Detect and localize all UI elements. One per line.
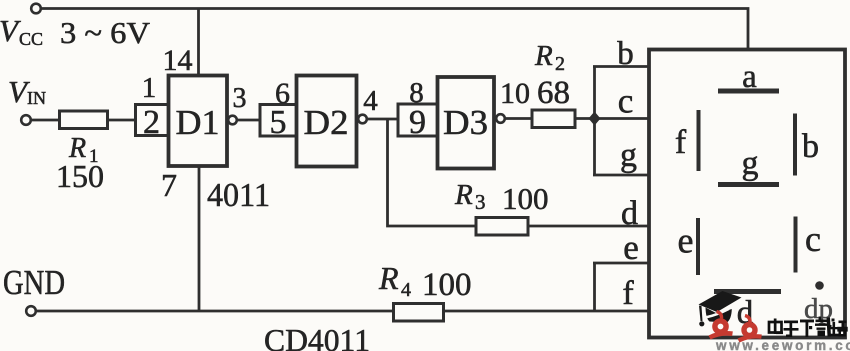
svg-text:d: d bbox=[621, 195, 638, 232]
label VIN bbox=[8, 74, 46, 109]
wire pin 7 of D1 to GND rail bbox=[198, 166, 201, 311]
resistor R3 bbox=[476, 218, 528, 236]
wire GND rail bbox=[36, 310, 394, 313]
svg-text:IN: IN bbox=[27, 88, 46, 108]
svg-text:f: f bbox=[622, 275, 634, 312]
wire D1 output to D2 input bbox=[237, 119, 261, 122]
label R3 bbox=[454, 179, 486, 214]
svg-text:150: 150 bbox=[56, 158, 104, 194]
node label e bbox=[623, 228, 639, 267]
value 150 bbox=[56, 158, 104, 194]
segment label b bbox=[802, 128, 819, 165]
node label g bbox=[620, 137, 637, 174]
segment a bbox=[718, 89, 779, 94]
svg-text:10: 10 bbox=[500, 77, 530, 110]
segment e bbox=[696, 218, 700, 275]
label VCC 3~6V bbox=[0, 13, 151, 50]
svg-text:V: V bbox=[0, 13, 21, 48]
gate D3 input box pin 9 bbox=[398, 104, 438, 141]
svg-text:2: 2 bbox=[555, 53, 565, 75]
gate D1 input box pin 2 bbox=[136, 104, 169, 141]
label R2 bbox=[534, 40, 565, 75]
svg-text:D1: D1 bbox=[176, 103, 220, 142]
svg-text:f: f bbox=[675, 124, 687, 161]
segment label a bbox=[742, 59, 757, 95]
label CD4011 bbox=[264, 322, 370, 351]
watermark text dianzi xiazai zhan bbox=[769, 317, 847, 338]
node label d bbox=[621, 195, 638, 232]
wire node c bbox=[594, 117, 649, 120]
svg-text:CC: CC bbox=[19, 29, 43, 49]
wire R2 to junction bbox=[574, 117, 594, 120]
pin label 7 bbox=[161, 167, 177, 203]
segment label f bbox=[675, 124, 687, 161]
wire VCC rail bbox=[41, 9, 748, 51]
segment d bbox=[714, 289, 781, 294]
svg-text:9: 9 bbox=[409, 104, 426, 141]
resistor R4 bbox=[394, 304, 444, 322]
svg-text:GND: GND bbox=[3, 263, 65, 302]
segment b bbox=[793, 114, 797, 176]
terminal VCC bbox=[31, 4, 41, 14]
segment c bbox=[794, 217, 798, 273]
wire D3 output to R2 bbox=[505, 117, 532, 120]
pin label 4 bbox=[363, 85, 378, 117]
resistor R1 bbox=[60, 111, 108, 129]
svg-text:3 ~ 6V: 3 ~ 6V bbox=[60, 15, 151, 50]
gate D3 body bbox=[438, 77, 495, 169]
gate D3 output bubble pin 10 bbox=[496, 114, 505, 123]
svg-text:g: g bbox=[620, 137, 637, 174]
value 100 of R3 bbox=[502, 181, 549, 216]
svg-text:D2: D2 bbox=[304, 103, 349, 142]
svg-text:2: 2 bbox=[143, 104, 160, 141]
svg-text:e: e bbox=[623, 228, 639, 267]
segment f bbox=[697, 110, 701, 171]
segment label g bbox=[742, 145, 759, 182]
svg-text:R: R bbox=[378, 260, 399, 296]
wire R4 to node f bbox=[443, 310, 649, 313]
label 4011 bbox=[207, 177, 270, 214]
svg-text:b: b bbox=[802, 128, 819, 165]
wire R1 to D1 input bbox=[107, 119, 136, 122]
segment label d bbox=[737, 295, 754, 331]
svg-text:4011: 4011 bbox=[207, 177, 270, 214]
wire node b bbox=[593, 65, 649, 68]
pin label 14 bbox=[163, 44, 193, 77]
node label f bbox=[622, 275, 634, 312]
wire node e bbox=[593, 262, 649, 265]
svg-text:3: 3 bbox=[233, 83, 247, 114]
segment label c bbox=[805, 219, 821, 259]
value 100 of R4 bbox=[422, 267, 472, 303]
gate D2 body bbox=[297, 76, 357, 167]
pin label 3 bbox=[233, 83, 247, 114]
display module LED box bbox=[649, 50, 845, 338]
svg-text:4: 4 bbox=[363, 85, 378, 117]
junction node bbox=[589, 112, 601, 126]
label R4 bbox=[378, 260, 411, 301]
wire node g bbox=[593, 174, 649, 177]
svg-text:a: a bbox=[742, 59, 757, 95]
decimal point dp bbox=[815, 281, 824, 290]
svg-text:www.eeworm.com: www.eeworm.com bbox=[715, 338, 850, 351]
svg-text:100: 100 bbox=[422, 267, 472, 303]
segment g bbox=[718, 182, 779, 187]
svg-text:g: g bbox=[742, 145, 759, 182]
pin label 10 bbox=[500, 77, 530, 110]
svg-text:14: 14 bbox=[163, 44, 193, 77]
gate D2 input box pin 5 bbox=[260, 104, 297, 141]
terminal VIN bbox=[21, 115, 31, 125]
svg-text:1: 1 bbox=[142, 72, 157, 104]
svg-text:D3: D3 bbox=[443, 103, 488, 142]
watermark url bbox=[715, 338, 850, 351]
svg-text:3: 3 bbox=[475, 190, 486, 214]
pin label 6 bbox=[275, 77, 290, 110]
node label b bbox=[617, 36, 634, 72]
op-amp U1 gate D1 body bbox=[169, 76, 228, 167]
wire bracket e f bbox=[593, 263, 596, 311]
svg-text:c: c bbox=[618, 82, 634, 121]
wire bracket b c g bbox=[593, 67, 596, 176]
terminal GND bbox=[26, 306, 36, 316]
svg-text:e: e bbox=[678, 221, 694, 261]
wire VIN to R1 bbox=[31, 119, 60, 122]
node label c bbox=[618, 82, 634, 121]
label GND bbox=[3, 263, 65, 302]
svg-text:8: 8 bbox=[409, 77, 424, 109]
svg-text:6: 6 bbox=[275, 77, 290, 110]
svg-text:R: R bbox=[454, 179, 473, 211]
segment label e bbox=[678, 221, 694, 261]
svg-text:R: R bbox=[534, 40, 553, 72]
pin label 1 bbox=[142, 72, 157, 104]
wire node d bbox=[527, 225, 649, 228]
svg-text:4: 4 bbox=[401, 279, 411, 301]
svg-text:CD4011: CD4011 bbox=[264, 322, 370, 351]
svg-text:c: c bbox=[805, 219, 821, 259]
resistor R2 bbox=[532, 110, 575, 128]
svg-text:7: 7 bbox=[161, 167, 177, 203]
svg-text:100: 100 bbox=[502, 181, 549, 216]
svg-text:b: b bbox=[617, 36, 634, 72]
wire branch D2 output to R3 bbox=[388, 119, 477, 226]
wire D2 output to D3 input bbox=[367, 118, 398, 121]
gate D2 output bubble pin 4 bbox=[358, 115, 367, 124]
svg-text:68: 68 bbox=[537, 75, 570, 111]
pin label 8 bbox=[409, 77, 424, 109]
segment label dp bbox=[804, 293, 833, 325]
gate D1 output bubble pin 3 bbox=[228, 116, 237, 125]
value 68 bbox=[537, 75, 570, 111]
label R1 bbox=[68, 133, 99, 167]
watermark graduation cap icon bbox=[699, 291, 742, 326]
watermark text chongchong bbox=[710, 312, 762, 341]
wire pin 14 of D1 to VCC rail bbox=[197, 9, 200, 77]
